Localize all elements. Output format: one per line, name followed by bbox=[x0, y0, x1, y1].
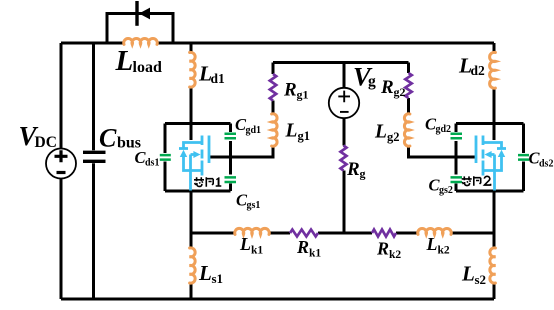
label Lload bbox=[115, 45, 162, 77]
wire: kelvin rail bbox=[191, 232, 494, 235]
svg-text:L: L bbox=[426, 234, 438, 254]
svg-text:g2: g2 bbox=[387, 130, 400, 144]
svg-text:gs2: gs2 bbox=[439, 185, 453, 196]
label Rg bbox=[346, 159, 366, 181]
resistor Rk1 bbox=[290, 230, 318, 237]
svg-text:ds1: ds1 bbox=[145, 158, 159, 169]
svg-text:d1: d1 bbox=[211, 71, 226, 86]
wire: chip2 source column bbox=[493, 191, 496, 299]
diode D cathode bar bbox=[135, 1, 138, 26]
label Rg1 bbox=[283, 80, 309, 102]
VDC minus bbox=[57, 171, 66, 174]
transistor Q1 body-diode arrow bbox=[180, 150, 187, 157]
svg-text:ds2: ds2 bbox=[539, 159, 553, 170]
svg-text:L: L bbox=[198, 261, 212, 285]
inductor Ls1 bbox=[190, 248, 196, 283]
label Ls2 bbox=[461, 262, 486, 288]
inductor Lk2 bbox=[418, 228, 452, 234]
svg-text:s2: s2 bbox=[475, 272, 487, 287]
label Rk2 bbox=[376, 239, 401, 262]
capacitor Cgd1 plates bbox=[225, 134, 237, 139]
inductor Lk1 bbox=[235, 228, 270, 234]
svg-text:g1: g1 bbox=[298, 129, 311, 143]
svg-text:gs1: gs1 bbox=[247, 200, 261, 211]
capacitor Cgd2 plates bbox=[451, 134, 463, 139]
inductor Lload bbox=[124, 38, 158, 44]
label Ls1 bbox=[198, 261, 223, 286]
label Cgs1 bbox=[236, 191, 260, 212]
VDC plus bbox=[55, 150, 68, 162]
diode D triangle bbox=[139, 8, 150, 20]
wire: gate drive top rail bbox=[273, 61, 409, 64]
svg-text:L: L bbox=[115, 45, 134, 77]
inductor Ld1 bbox=[190, 52, 196, 87]
label Cgs2 bbox=[429, 176, 453, 197]
source VDC circle bbox=[46, 149, 76, 179]
wire: Lg1 to chip1 gate bbox=[210, 146, 273, 157]
wire: chip2 drain inside box bbox=[493, 124, 496, 141]
label Ld1 bbox=[198, 62, 225, 87]
label Cgd1 bbox=[235, 115, 261, 136]
label Cbus bbox=[99, 124, 141, 153]
svg-text:gd2: gd2 bbox=[436, 124, 452, 135]
label Cgd2 bbox=[425, 115, 451, 136]
wire: top rail bbox=[61, 42, 494, 45]
wire: Cbus column bbox=[92, 43, 95, 299]
resistor Rg bbox=[341, 146, 347, 171]
resistor Rg1 bbox=[270, 74, 276, 101]
inductor Ls2 bbox=[490, 248, 496, 283]
wire: Rg2 leads bbox=[407, 63, 410, 115]
chip2 box bbox=[456, 124, 524, 192]
label Rk1 bbox=[296, 237, 321, 260]
label chip1 (芯片1) bbox=[194, 177, 213, 187]
svg-text:DC: DC bbox=[35, 134, 57, 151]
svg-text:L: L bbox=[239, 234, 251, 254]
svg-text:g1: g1 bbox=[297, 88, 309, 102]
label Ld2 bbox=[458, 54, 485, 79]
capacitor Cbus plates bbox=[83, 152, 106, 161]
resistor Rg2 bbox=[405, 73, 411, 98]
label Lg1 bbox=[285, 121, 311, 144]
label Cds2 bbox=[529, 149, 554, 170]
label Lg2 bbox=[374, 122, 400, 145]
svg-text:L: L bbox=[461, 262, 475, 286]
label Vg bbox=[353, 62, 376, 92]
wire: chip1 source column bbox=[190, 191, 193, 299]
capacitor Cgs1 plates bbox=[225, 177, 237, 182]
inductor Lg2 bbox=[404, 114, 409, 146]
svg-text:g: g bbox=[360, 167, 366, 181]
svg-text:g: g bbox=[368, 73, 376, 90]
label VDC bbox=[19, 121, 57, 151]
transistor Q2 (chip2 MOSFET) bbox=[476, 136, 506, 191]
label Lk2 bbox=[426, 234, 450, 257]
wire: Rg1 leads bbox=[272, 63, 275, 115]
Vg minus bbox=[340, 111, 349, 113]
svg-text:k2: k2 bbox=[389, 249, 401, 261]
svg-text:R: R bbox=[296, 237, 309, 257]
label Lk1 bbox=[239, 234, 263, 257]
wire: Rg column bbox=[343, 119, 346, 234]
capacitor Cgs2 plates bbox=[451, 177, 463, 182]
svg-text:L: L bbox=[285, 121, 298, 142]
source Vg circle bbox=[329, 88, 359, 118]
label chip2 (芯片2) bbox=[462, 176, 481, 186]
capacitor Cds2 plates bbox=[518, 155, 529, 160]
svg-text:R: R bbox=[346, 159, 360, 180]
svg-text:L: L bbox=[374, 122, 387, 143]
svg-text:load: load bbox=[133, 59, 162, 76]
svg-text:k1: k1 bbox=[251, 245, 263, 257]
svg-text:R: R bbox=[380, 77, 394, 98]
Vg plus bbox=[338, 91, 350, 103]
wire: chip1 drain column bbox=[190, 43, 193, 124]
chip1 box bbox=[165, 124, 231, 192]
transistor Q2 gate arrow bbox=[485, 151, 492, 158]
wire: chip2 drain column bbox=[493, 43, 496, 124]
svg-text:s1: s1 bbox=[212, 271, 224, 286]
transistor Q2 body-diode arrow bbox=[498, 150, 505, 157]
transistor Q1 gate arrow bbox=[193, 151, 200, 158]
transistor Q1 (chip1 MOSFET) bbox=[179, 136, 209, 191]
resistor Rk2 bbox=[372, 230, 396, 237]
inductor Lg1 bbox=[272, 114, 277, 146]
svg-text:d2: d2 bbox=[471, 63, 486, 78]
wire: Lg2 to chip2 gate bbox=[409, 146, 476, 157]
svg-text:R: R bbox=[283, 80, 297, 101]
wire: bottom rail bbox=[61, 298, 494, 301]
label Rg2 bbox=[380, 77, 406, 99]
svg-text:R: R bbox=[376, 239, 389, 259]
svg-text:k1: k1 bbox=[309, 248, 321, 260]
wire: left VDC column bottom bbox=[60, 179, 63, 300]
label Cds1 bbox=[135, 148, 160, 169]
svg-text:C: C bbox=[99, 124, 117, 153]
wire: left VDC column top bbox=[60, 43, 63, 149]
capacitor Cds1 plates bbox=[160, 155, 171, 160]
svg-text:gd1: gd1 bbox=[246, 125, 262, 136]
wire: diode loop bbox=[107, 14, 173, 44]
svg-text:g2: g2 bbox=[394, 85, 406, 99]
inductor Ld2 bbox=[490, 52, 496, 88]
wire: chip1 drain inside box bbox=[190, 124, 193, 141]
svg-text:k2: k2 bbox=[438, 245, 450, 257]
wire: Vg lead bbox=[343, 63, 346, 88]
